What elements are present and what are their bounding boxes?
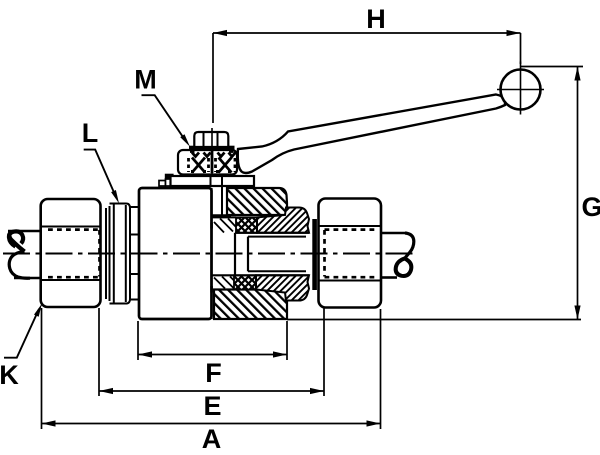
svg-text:E: E (203, 391, 221, 421)
node G arrows (574, 67, 580, 81)
body bottom-right block (214, 290, 287, 320)
wire H dimension line (213, 33, 521, 123)
wire E dimension line (99, 304, 324, 396)
svg-text:A: A (202, 424, 222, 454)
right tube break squiggle (405, 233, 414, 259)
top seat seal crosshatch (236, 217, 257, 232)
left tube break sweep (9, 252, 30, 279)
svg-text:M: M (134, 65, 157, 95)
node H arrows (213, 30, 227, 36)
stop screw on body top (159, 181, 166, 187)
bottom seat seal crosshatch (234, 275, 256, 289)
wire G dimension line (287, 67, 583, 320)
ball land sparse hatch top (214, 219, 236, 233)
stem washer (189, 146, 235, 151)
left tube (8, 230, 41, 233)
body top-right gland block (227, 188, 287, 215)
node F arrows (138, 351, 152, 357)
right tube stub (381, 232, 407, 235)
svg-text:H: H (366, 4, 386, 34)
knurl marks (189, 151, 236, 173)
stem hex nut M (194, 132, 228, 147)
ball crosshairs (497, 89, 544, 91)
nut right hex nut (319, 199, 382, 308)
wire F dimension line (138, 321, 287, 360)
left fitting body lines to valve (130, 207, 139, 300)
ball land sparse hatch bottom (214, 277, 234, 289)
right nut hidden thread dashes (325, 230, 378, 278)
right fitting upper section (257, 208, 309, 233)
handle ball end (501, 70, 541, 110)
svg-text:F: F (205, 358, 222, 388)
stem shank in section (221, 186, 223, 215)
valve body left half (139, 188, 212, 319)
stem centerline through nut (211, 128, 213, 176)
node A arrows (42, 420, 56, 426)
nut K left hex nut (41, 199, 101, 307)
handle lever (238, 95, 505, 174)
section line accents (210, 223, 213, 229)
right fitting lower section (256, 275, 309, 300)
left nut hidden thread dashes (48, 230, 100, 278)
wire A dimension line (42, 308, 381, 429)
stem packing collar with knurl (178, 150, 237, 175)
svg-text:G: G (581, 192, 600, 222)
body section divider (210, 188, 212, 319)
compression ferrule (312, 219, 317, 290)
washer L left fitting stack (106, 204, 130, 304)
mounting plate (171, 176, 255, 186)
bore walls (234, 233, 236, 275)
node E arrows (99, 388, 113, 394)
svg-text:K: K (0, 360, 19, 390)
svg-text:L: L (82, 118, 99, 148)
left tube break squiggle loop (9, 233, 24, 252)
centerline main axis (3, 253, 418, 255)
